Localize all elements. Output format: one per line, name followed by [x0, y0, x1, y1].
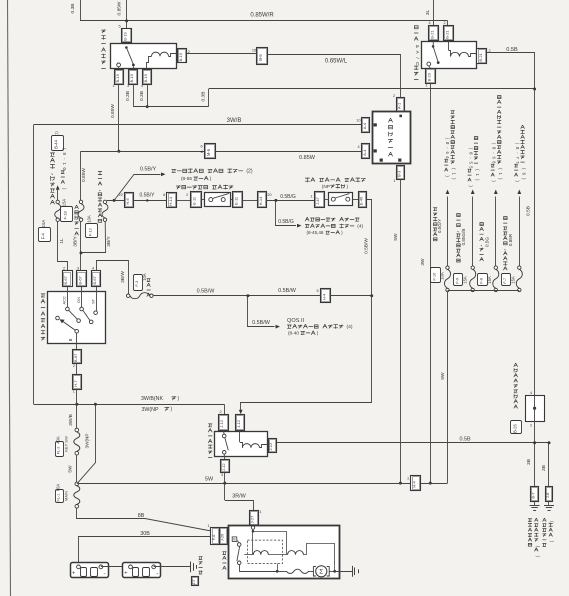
svg-text:2: 2: [63, 267, 65, 271]
svg-text:6: 6: [163, 193, 165, 197]
wire pull-in coil to motor node: [307, 544, 335, 572]
svg-text:B-21: B-21: [478, 52, 483, 61]
svg-text:4: 4: [357, 145, 359, 149]
wire 3B to J-8: [548, 443, 550, 486]
wire 0.5B/W row: [153, 295, 372, 297]
wire 0.5B/G to exhaust brake control relay: [276, 200, 297, 225]
svg-text:(4): (4): [347, 324, 353, 330]
svg-text:5W: 5W: [440, 372, 446, 380]
svg-text:4: 4: [141, 84, 143, 88]
node ground branch 2: [548, 441, 551, 444]
wire 8B from FL-1: [77, 508, 212, 530]
connector B-44 radio cigar lighter: [52, 136, 64, 151]
svg-text:B-20: B-20: [426, 72, 431, 81]
svg-text:B-67: B-67: [77, 275, 82, 284]
connector E-11 left: [191, 192, 202, 208]
svg-text:J-12: J-12: [268, 442, 273, 451]
wire 0.85W from B-19 pin1 down: [118, 84, 120, 151]
connector H-4 on 0.5B/W: [321, 289, 331, 303]
svg-text:3L: 3L: [425, 10, 431, 16]
svg-text:F-8: F-8: [480, 278, 484, 284]
svg-text:(8-40: (8-40: [288, 331, 299, 337]
svg-text:1: 1: [207, 524, 209, 528]
connector J-26 starter feed: [220, 528, 228, 545]
svg-text:H-14: H-14: [168, 196, 173, 205]
fuse F-8: [494, 266, 497, 269]
svg-text:J-12: J-12: [236, 419, 241, 428]
wire key feed bus y404: [34, 404, 225, 406]
svg-text:B-19: B-19: [178, 52, 183, 61]
wire 0.5B/W down to starter relay J-12: [241, 296, 372, 411]
wire 5W fuse feed down to main bus: [447, 292, 449, 483]
connector A-4 generator left lower: [362, 144, 370, 159]
connector H-7: [73, 375, 82, 390]
sub starter switch S3: [329, 193, 353, 206]
wire 3B to B-7: [534, 443, 536, 486]
svg-text:0.5B/G: 0.5B/G: [278, 219, 294, 225]
fuse bus: [448, 290, 520, 292]
svg-text:5: 5: [118, 25, 120, 29]
wire 3R/W to starter S: [225, 501, 254, 511]
connector F-6 starter feed: [211, 528, 220, 545]
wire 0.5B long right drop: [534, 89, 536, 395]
svg-text:(8-45,46: (8-45,46: [307, 230, 324, 235]
svg-text:5: 5: [316, 289, 318, 293]
node FL-1 top: [75, 482, 79, 486]
wire 0.3B horizontal: [133, 106, 208, 108]
svg-text:F-4: F-4: [40, 232, 45, 239]
ground left frame: [548, 502, 550, 506]
heater relay contact: [432, 45, 435, 48]
svg-text:10: 10: [356, 119, 360, 123]
svg-text:3W/B(NK: 3W/B(NK: [141, 396, 164, 402]
wire 5W generator to main bus: [400, 179, 402, 483]
connector H-14 right: [258, 192, 267, 208]
svg-text:-: -: [104, 572, 106, 578]
svg-text:0.3B: 0.3B: [139, 91, 145, 101]
fuse F-18 15A generator: [79, 200, 82, 203]
wire 0.3B from B-19 pin4: [147, 84, 149, 106]
ground frame: [190, 562, 192, 573]
battery series link: [101, 566, 131, 568]
svg-text:10A: 10A: [440, 272, 445, 280]
svg-text:H-6: H-6: [125, 197, 130, 204]
svg-text:5W: 5W: [68, 465, 74, 473]
wire 0.5B joint connector to ground line: [534, 422, 536, 443]
starter coils: [244, 554, 253, 556]
connector B-21 pin4: [429, 26, 439, 41]
svg-text:5W: 5W: [393, 233, 399, 241]
connector J-8: [546, 487, 553, 502]
wire 0.5B/W to QOS II control unit: [248, 296, 275, 327]
svg-text:3: 3: [77, 267, 79, 271]
svg-text:A-4: A-4: [362, 149, 367, 156]
node bus J-12 junction: [223, 482, 226, 485]
svg-text:0.5B/Y: 0.5B/Y: [139, 193, 155, 199]
svg-text:0.85W: 0.85W: [110, 104, 116, 118]
node F-18/F-12 join: [80, 251, 83, 254]
wire 3W/B to fusible link FL-2: [76, 404, 78, 428]
wire 0.85W generator line: [81, 151, 362, 153]
svg-text:B-44: B-44: [53, 139, 58, 149]
wire 0.3B from B-19 pin3: [133, 84, 135, 106]
svg-text:B-67: B-67: [73, 353, 78, 362]
svg-text:0.5B: 0.5B: [525, 206, 531, 216]
svg-text:C: C: [414, 62, 420, 66]
fusible link FL-1 60A MAIN: [74, 486, 80, 505]
relay K1 charge relay (charge relay box): [111, 44, 177, 69]
starter hold-in coil dashed box: [247, 540, 282, 564]
connector H-14 left: [167, 193, 177, 208]
svg-text:0.5G/Y: 0.5G/Y: [437, 219, 442, 233]
svg-text:KEY SW: KEY SW: [63, 436, 68, 452]
svg-text:FL-1: FL-1: [57, 494, 61, 502]
svg-text:10A: 10A: [87, 215, 92, 223]
svg-text:3B/W: 3B/W: [120, 271, 126, 283]
svg-text:ACC: ACC: [62, 296, 67, 305]
svg-text:1: 1: [73, 390, 75, 394]
svg-text:0.85W: 0.85W: [117, 1, 123, 15]
svg-text:FL-2: FL-2: [57, 446, 61, 454]
wire 3W/B left drop: [33, 125, 35, 405]
svg-text:0.5B/W: 0.5B/W: [252, 320, 271, 326]
svg-text:0.85W: 0.85W: [81, 168, 87, 182]
battery BT2: [123, 563, 161, 578]
connector B-5: [257, 48, 268, 65]
fusible link FL-2 40A KEY SW: [75, 428, 79, 432]
svg-text:0.85R: 0.85R: [508, 233, 513, 246]
node 0.5B/W join: [370, 294, 373, 297]
svg-text:2: 2: [73, 364, 75, 368]
svg-text:2: 2: [530, 424, 532, 428]
connector B-67 pin ST: [92, 271, 101, 287]
svg-text:1: 1: [112, 84, 114, 88]
wire 0.85W/R top bus: [80, 20, 448, 22]
connector B-3 generator bottom: [397, 166, 405, 180]
svg-text:10A: 10A: [142, 273, 147, 281]
svg-text:1: 1: [407, 477, 409, 481]
wire 0.5B/W drop from sub starter switch: [367, 200, 372, 296]
starter relay coil: [239, 430, 241, 442]
wire 0.65W/L to generator A-1: [267, 55, 400, 98]
connector E-40: [359, 192, 367, 208]
svg-text:40A: 40A: [55, 436, 60, 444]
connector B-19 pin3: [129, 70, 138, 85]
wire 1L from F-4 to B-67: [58, 221, 68, 270]
connector H-4 on main bus: [411, 476, 421, 491]
svg-text:3B: 3B: [541, 465, 547, 471]
svg-text:3W(NP: 3W(NP: [85, 434, 90, 449]
fuse F-9: [471, 266, 474, 269]
connector J-12 contact bottom: [221, 460, 230, 473]
svg-text:2: 2: [393, 94, 395, 98]
svg-text:3: 3: [127, 84, 129, 88]
wire S to coils: [253, 532, 287, 555]
fuse F-10: [446, 266, 449, 269]
connector B-19 pin5 top of charge relay: [122, 29, 132, 43]
connector B-19 pin4: [143, 70, 152, 85]
connector B-67 pin ACC: [63, 271, 73, 287]
charge relay coil: [152, 52, 169, 56]
svg-text:0.5B/W: 0.5B/W: [197, 289, 216, 295]
svg-text:4: 4: [92, 267, 94, 271]
svg-text:3W: 3W: [420, 258, 426, 266]
wire battery2 to frame ground: [154, 566, 191, 568]
svg-text:F-10: F-10: [432, 273, 436, 281]
connector J-12 coil top: [236, 415, 245, 431]
page border left: [8, 0, 11, 596]
svg-text:(NP: (NP: [322, 184, 330, 190]
node 0.5B/Y branch: [113, 199, 116, 202]
svg-text:3B: 3B: [526, 459, 532, 465]
wire 0.5B/Y to cornering lamp relay: [114, 175, 160, 201]
battery BT1: [71, 563, 109, 578]
charge relay contact: [125, 46, 128, 49]
svg-text:15A: 15A: [511, 276, 516, 284]
wire 0.85W/R riser from top edge: [126, 0, 128, 21]
wire contact to B-19 pin1: [118, 67, 120, 70]
svg-text:B-19: B-19: [129, 73, 134, 82]
svg-text:1: 1: [259, 510, 261, 514]
svg-text:+: +: [124, 570, 127, 576]
svg-text:B-7: B-7: [531, 492, 536, 499]
fuse F-3 10A starter: [127, 294, 130, 297]
svg-text:F-3: F-3: [134, 280, 139, 287]
starter B terminal: [232, 537, 237, 542]
connector E-11 right: [233, 192, 243, 208]
svg-text:F-6: F-6: [212, 535, 216, 541]
connector B-20: [426, 69, 436, 84]
wire from F-12 top: [107, 200, 125, 202]
svg-text:M-6: M-6: [206, 148, 211, 156]
svg-text:15A: 15A: [463, 276, 468, 284]
wire 0.3B riser: [208, 89, 210, 107]
svg-text:F-7: F-7: [503, 278, 507, 284]
node ground branch 1: [533, 441, 536, 444]
svg-text:22: 22: [119, 193, 123, 197]
connector B-19 pin2 right: [178, 49, 187, 63]
svg-text:2: 2: [219, 410, 221, 414]
svg-text:H-4: H-4: [412, 480, 417, 487]
svg-text:ST: ST: [90, 298, 95, 304]
connector J-47: [315, 192, 325, 208]
svg-text:15A: 15A: [62, 199, 67, 207]
svg-text:B-26: B-26: [512, 423, 517, 433]
svg-text:1: 1: [425, 84, 427, 88]
wire 0.5B/G to sub starter switch: [266, 200, 314, 202]
starter switch common B with arrow: [56, 316, 60, 320]
node key switch drop: [75, 403, 78, 406]
fuse F-12 10A meter backup lamp: [103, 200, 106, 203]
svg-text:B-5: B-5: [258, 54, 263, 61]
wire 0.3B from top edge: [80, 0, 82, 21]
connector B-67 below key switch: [73, 350, 82, 364]
generator G1 box: [373, 112, 411, 164]
starter S terminal entry: [251, 526, 254, 529]
wire contact drop through bus to 3R/W: [224, 472, 226, 500]
svg-text:B-67: B-67: [63, 275, 68, 284]
ground starter: [352, 566, 354, 577]
svg-text:QOS II: QOS II: [287, 318, 305, 324]
svg-text:J-4: J-4: [192, 580, 196, 585]
svg-text:0.3B: 0.3B: [201, 92, 207, 102]
wire 3W/B main feed line: [34, 124, 362, 126]
wire starter to ground: [335, 571, 352, 573]
svg-text:J-27: J-27: [250, 515, 255, 524]
wire 0.3B long line to heater relay area: [209, 88, 534, 90]
connector H-6: [125, 193, 134, 208]
svg-text:3R/W: 3R/W: [232, 494, 246, 500]
svg-text:B-19: B-19: [115, 73, 120, 82]
svg-text:E-40: E-40: [358, 196, 363, 205]
svg-text:E-11: E-11: [234, 196, 239, 205]
wire 0.5B/Y: [133, 200, 167, 202]
connector B-21 pin2: [444, 26, 454, 41]
node 0.3B join: [146, 105, 149, 108]
connector B-19 pin1: [115, 70, 124, 85]
wire 30B battery to starter: [79, 537, 212, 566]
connector A-1 generator top: [397, 98, 405, 112]
connector J-27: [250, 511, 259, 526]
svg-text:B-21: B-21: [429, 30, 434, 39]
svg-text:(8-55: (8-55: [181, 176, 192, 182]
wire contact to B-19 pin3: [133, 66, 135, 69]
connector B-7: [531, 487, 539, 502]
svg-text:B-67: B-67: [92, 275, 97, 284]
connector B-67 pin ON: [77, 271, 87, 287]
svg-text:A-1: A-1: [397, 102, 402, 109]
starter relay contact: [223, 430, 224, 434]
connector A-4 generator left upper: [362, 118, 370, 133]
svg-text:1L: 1L: [59, 238, 65, 244]
wire up arrows to branch circuits: [447, 197, 449, 266]
svg-text:H-7: H-7: [73, 380, 78, 387]
svg-text:B-21: B-21: [444, 30, 449, 39]
svg-text:3W(NP: 3W(NP: [141, 407, 159, 413]
wire 0.85W drop to fuse F-18: [80, 151, 82, 200]
svg-text:B-19: B-19: [123, 32, 128, 41]
wire starter relay contact feed: [224, 404, 226, 415]
svg-text:Σ: Σ: [319, 569, 323, 576]
svg-text:F-12: F-12: [88, 227, 93, 236]
wire 0.65W/L charge relay to B-5: [187, 53, 257, 55]
svg-text:0.85W/R: 0.85W/R: [250, 13, 274, 19]
svg-text:4: 4: [530, 391, 532, 395]
svg-text:5W: 5W: [205, 476, 214, 482]
svg-text:J-8: J-8: [545, 492, 550, 498]
svg-text:F-18: F-18: [63, 211, 68, 220]
relay box heater AC: [422, 42, 477, 69]
starter switch SW1 box: [48, 292, 106, 344]
svg-text:-: -: [156, 572, 158, 578]
starter magnetic switch contact: [237, 543, 241, 547]
wire 3W NP bypass: [78, 404, 95, 482]
branch circuit labels with wire colors: [433, 208, 437, 241]
heater relay coil: [448, 41, 450, 50]
wire ST riser to F-3: [97, 261, 129, 294]
svg-text:H-14: H-14: [258, 196, 263, 205]
svg-text:0.3B: 0.3B: [125, 91, 131, 101]
svg-text:15: 15: [252, 49, 256, 53]
node exhaust brake branch: [274, 199, 277, 202]
svg-text:A-4: A-4: [362, 122, 367, 129]
svg-text:0.5B/W: 0.5B/W: [278, 288, 297, 294]
svg-text:0.3B: 0.3B: [70, 4, 76, 14]
svg-text:0.5B/Y: 0.5B/Y: [140, 167, 157, 173]
svg-text:E-11: E-11: [192, 196, 197, 205]
svg-text:(2): (2): [246, 169, 252, 175]
wire 5W main bus: [77, 483, 448, 485]
svg-text:15A: 15A: [487, 276, 492, 284]
svg-text:(4): (4): [357, 224, 363, 230]
svg-text:ON: ON: [76, 297, 81, 303]
svg-text:0.5G: 0.5G: [484, 237, 489, 247]
svg-text:F-9: F-9: [455, 278, 459, 284]
svg-text:3B/Y: 3B/Y: [106, 236, 112, 247]
generator terminals: [374, 123, 377, 126]
fuse F-4 15A: [56, 185, 60, 190]
svg-text:0.85G/B: 0.85G/B: [461, 229, 466, 246]
wire B-67 stubs into switch: [67, 287, 69, 292]
wire hold coil return: [277, 564, 279, 572]
svg-text:15A: 15A: [41, 220, 46, 228]
starter motor main path: [239, 565, 241, 572]
connector J-12 contact top: [219, 415, 229, 431]
svg-text:0.85W: 0.85W: [299, 155, 316, 161]
starter armature: [313, 567, 316, 576]
svg-text:J-47: J-47: [315, 196, 320, 205]
node QOS branch: [246, 294, 249, 297]
svg-text:30B: 30B: [140, 531, 150, 537]
svg-text:H-4: H-4: [322, 293, 327, 300]
svg-text:(1): (1): [55, 130, 59, 135]
node 0.3B end junction: [533, 88, 536, 91]
svg-text:MAIN: MAIN: [63, 491, 68, 501]
svg-text:J-12: J-12: [219, 419, 224, 428]
svg-text:4: 4: [428, 21, 430, 25]
node 0.85W junction: [117, 150, 120, 153]
svg-text:3: 3: [221, 473, 223, 477]
connector J-12 coil right: [269, 439, 277, 453]
svg-text:3B/Y: 3B/Y: [73, 236, 79, 247]
wire 3L from top edge to B-21: [433, 0, 435, 26]
wire drop to B-21 pin2: [447, 21, 449, 26]
wire 0.5B heater relay to right drop: [487, 53, 535, 90]
svg-text:B: B: [68, 338, 73, 341]
svg-text:B-19: B-19: [143, 73, 148, 82]
svg-text:2: 2: [443, 21, 445, 25]
svg-text:1: 1: [310, 195, 312, 199]
wire 0.5B starter relay coil ground line: [276, 442, 549, 444]
svg-text:3W/B: 3W/B: [227, 118, 242, 124]
svg-text:0.5B/W: 0.5B/W: [364, 238, 370, 254]
svg-text:+: +: [72, 570, 75, 576]
starter motor M1: [229, 526, 340, 579]
wire 3B/Y from F-18: [80, 221, 82, 270]
fuse F-7: [518, 266, 521, 269]
joint connector B-26: [526, 396, 545, 422]
svg-text:0.5B/G: 0.5B/G: [280, 194, 296, 200]
node NP bypass branch: [94, 403, 97, 406]
svg-text:0.5B: 0.5B: [506, 47, 518, 53]
svg-text:J-12: J-12: [221, 463, 226, 472]
wire coil to B-19 pin4: [147, 63, 150, 70]
svg-text:8B: 8B: [138, 513, 145, 519]
connector B-21 pin2 right: [477, 49, 487, 64]
svg-text:1: 1: [393, 179, 395, 183]
wire stub to B-19 pin 5: [126, 21, 128, 28]
connector J-4 frame: [192, 577, 199, 586]
